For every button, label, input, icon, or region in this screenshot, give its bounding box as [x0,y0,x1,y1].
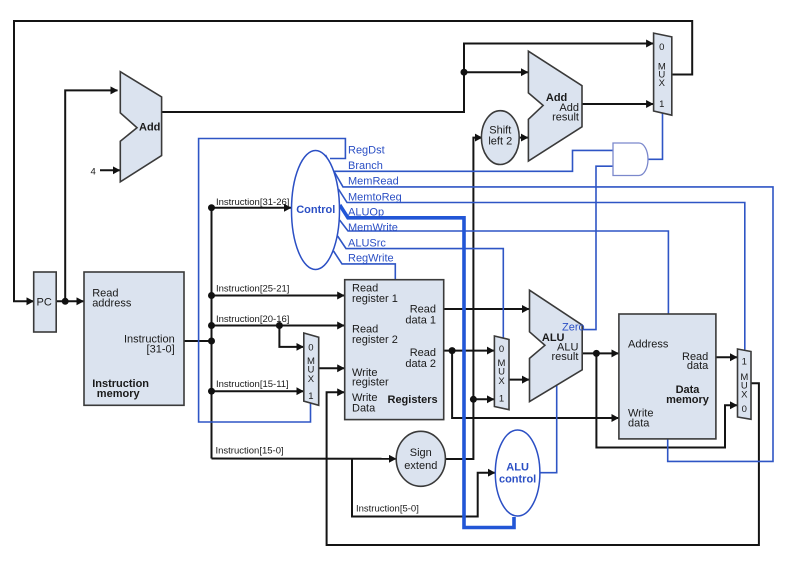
svg-text:Instruction[15-0]: Instruction[15-0] [216,446,284,457]
svg-text:ALUSrc: ALUSrc [348,237,386,249]
svg-text:Instruction[31-26]: Instruction[31-26] [216,197,289,208]
svg-text:0: 0 [659,42,664,53]
svg-text:Instruction[20-16]: Instruction[20-16] [216,314,289,325]
svg-text:Registers: Registers [388,394,438,406]
svg-text:result: result [551,351,578,363]
svg-text:Instruction[25-21]: Instruction[25-21] [216,284,289,295]
svg-text:data 1: data 1 [405,314,436,326]
svg-text:0: 0 [742,404,747,415]
svg-text:Instruction[15-11]: Instruction[15-11] [216,379,289,390]
svg-text:X: X [741,389,748,400]
svg-text:data: data [628,417,650,429]
svg-text:RegDst: RegDst [348,145,385,157]
svg-text:1: 1 [742,356,747,367]
svg-text:Add: Add [139,122,160,134]
svg-text:Data: Data [352,403,376,415]
svg-text:1: 1 [659,99,664,110]
svg-text:0: 0 [308,343,313,354]
svg-text:memory: memory [97,388,141,400]
svg-text:Control: Control [296,204,335,216]
svg-text:register 2: register 2 [352,334,398,346]
svg-text:Branch: Branch [348,160,383,172]
svg-text:PC: PC [37,296,52,308]
svg-text:Instruction[5-0]: Instruction[5-0] [356,504,419,515]
svg-text:4: 4 [91,166,96,177]
svg-text:X: X [659,78,666,89]
svg-text:data: data [687,360,709,372]
svg-text:register 1: register 1 [352,293,398,305]
svg-text:Sign: Sign [410,447,432,459]
svg-text:control: control [499,474,536,486]
svg-text:1: 1 [499,394,504,405]
svg-text:ALUOp: ALUOp [348,207,384,219]
svg-text:MemtoReg: MemtoReg [348,191,402,203]
svg-text:Zero: Zero [562,322,585,334]
svg-text:memory: memory [666,394,710,406]
svg-text:X: X [498,376,505,387]
svg-text:MemWrite: MemWrite [348,222,398,234]
svg-text:result: result [552,111,579,123]
svg-text:MemRead: MemRead [348,176,399,188]
svg-text:1: 1 [308,391,313,402]
svg-text:RegWrite: RegWrite [348,253,394,265]
svg-text:0: 0 [499,344,504,355]
svg-text:left 2: left 2 [488,135,512,147]
svg-text:Address: Address [628,339,669,351]
svg-text:register: register [352,377,389,389]
svg-text:[31-0]: [31-0] [147,344,175,356]
svg-text:extend: extend [404,460,437,472]
svg-text:ALU: ALU [506,462,529,474]
svg-text:X: X [308,374,315,385]
svg-text:data 2: data 2 [405,358,436,370]
svg-text:address: address [92,298,132,310]
